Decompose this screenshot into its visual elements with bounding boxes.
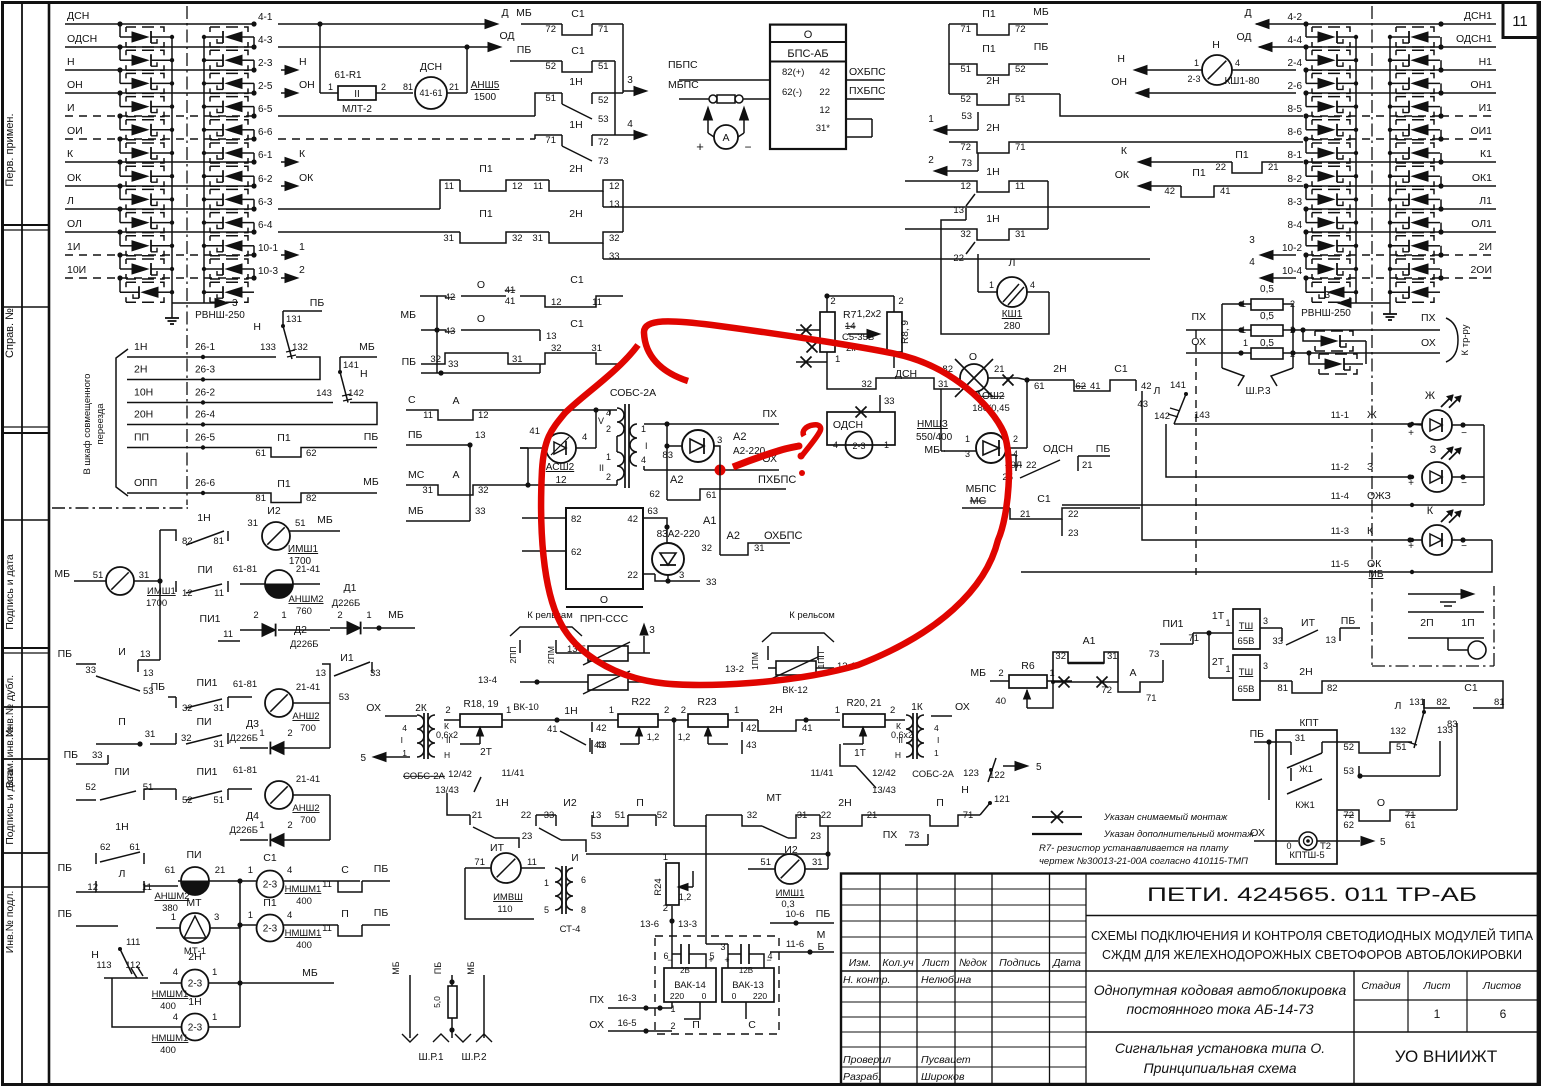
svg-text:2-3: 2-3 — [1187, 74, 1200, 84]
arrow out ОК — [281, 185, 286, 187]
svg-text:ВАК-13: ВАК-13 — [732, 980, 764, 991]
svg-text:Ж: Ж — [1425, 390, 1435, 402]
svg-text:63: 63 — [647, 506, 658, 517]
svg-text:ПБ: ПБ — [364, 431, 379, 443]
svg-text:21: 21 — [1268, 162, 1279, 173]
svg-text:6-6: 6-6 — [258, 127, 273, 138]
svg-text:ДСН1: ДСН1 — [1464, 10, 1492, 22]
svg-text:МБПС: МБПС — [668, 79, 699, 91]
svg-text:21: 21 — [1082, 460, 1093, 471]
svg-text:72: 72 — [545, 24, 556, 35]
dash separator signals — [1195, 330, 1197, 575]
svg-text:Л: Л — [119, 868, 126, 880]
svg-text:ПБ: ПБ — [374, 863, 389, 875]
svg-text:Н: Н — [253, 321, 261, 333]
svg-text:13: 13 — [475, 430, 486, 441]
svg-text:51: 51 — [960, 64, 971, 75]
dash-dot horizontal crossing bottom — [52, 507, 188, 509]
svg-text:12/42: 12/42 — [448, 769, 472, 780]
svg-text:31: 31 — [213, 703, 224, 714]
svg-text:61-81: 61-81 — [233, 765, 257, 776]
svg-text:82: 82 — [1327, 683, 1338, 694]
svg-text:2Т: 2Т — [480, 747, 492, 758]
contact KZh1 — [1290, 768, 1292, 781]
BPS pin12 pin31 loop — [846, 118, 872, 120]
vertical 13-3 from P contact — [705, 826, 707, 944]
svg-text:ПХ: ПХ — [883, 829, 898, 841]
svg-text:2-3: 2-3 — [188, 1023, 203, 1034]
svg-text:1: 1 — [1194, 58, 1199, 68]
right vertical ShR3 — [1292, 304, 1294, 368]
svg-text:ОДСН: ОДСН — [67, 33, 97, 45]
svg-text:С: С — [408, 394, 416, 406]
svg-text:31: 31 — [1015, 229, 1026, 240]
svg-text:1: 1 — [641, 424, 646, 434]
svg-text:С: С — [748, 1019, 756, 1031]
svg-text:1: 1 — [1434, 1007, 1441, 1021]
svg-text:О: О — [969, 351, 977, 363]
svg-text:С1: С1 — [571, 8, 585, 20]
svg-text:И1: И1 — [1479, 102, 1493, 114]
svg-text:ВК-10: ВК-10 — [513, 702, 539, 713]
svg-text:ТШ: ТШ — [1239, 621, 1254, 632]
svg-text:ОИ: ОИ — [67, 125, 83, 137]
svg-text:73: 73 — [1149, 649, 1160, 660]
arrester pair row 10 right — [1305, 232, 1307, 246]
svg-text:16-5: 16-5 — [617, 1018, 636, 1029]
left strip box Sprav No — [3, 306, 50, 308]
svg-text:8-2: 8-2 — [1288, 174, 1303, 185]
svg-text:ПБ: ПБ — [374, 907, 389, 919]
svg-text:1,2: 1,2 — [647, 732, 660, 742]
svg-text:И: И — [571, 853, 578, 864]
left block bus col1 — [171, 37, 173, 303]
wire 2N to row I1 — [1060, 94, 1303, 116]
svg-text:А2: А2 — [727, 530, 740, 542]
svg-text:33: 33 — [884, 396, 895, 407]
svg-text:12: 12 — [512, 181, 523, 192]
svg-text:400: 400 — [296, 940, 312, 951]
svg-text:С1: С1 — [571, 45, 585, 57]
svg-text:4-1: 4-1 — [258, 12, 273, 23]
svg-text:Лист: Лист — [921, 957, 949, 969]
svg-text:11/41: 11/41 — [501, 768, 524, 779]
arrester pair row 9 left — [119, 209, 121, 223]
svg-text:53: 53 — [961, 111, 972, 122]
O lamp left vertical — [940, 389, 942, 451]
svg-text:71: 71 — [474, 857, 485, 868]
svg-text:4: 4 — [287, 910, 292, 921]
svg-text:Д: Д — [501, 7, 508, 19]
svg-text:22: 22 — [1026, 460, 1037, 471]
svg-text:4: 4 — [173, 1012, 178, 1023]
svg-text:73: 73 — [909, 830, 920, 841]
right vertical bus x623 top — [622, 24, 624, 93]
svg-text:К рельсам: К рельсам — [527, 610, 572, 621]
svg-text:ВК-12: ВК-12 — [782, 685, 808, 696]
svg-text:51: 51 — [598, 61, 609, 72]
svg-text:1: 1 — [1241, 325, 1246, 335]
svg-text:ОЛ: ОЛ — [67, 218, 82, 230]
shunt box 13-5 — [588, 646, 628, 661]
svg-text:R8, 9: R8, 9 — [900, 320, 911, 344]
wire 23 down to 11-4 row — [1061, 536, 1063, 545]
svg-text:Однопутная кодовая автоблокиро: Однопутная кодовая автоблокировка — [1094, 982, 1347, 998]
svg-text:2ПМ: 2ПМ — [546, 646, 556, 664]
svg-text:КШ1-80: КШ1-80 — [1224, 76, 1259, 87]
svg-text:АНШ2: АНШ2 — [292, 803, 319, 814]
svg-text:I: I — [937, 735, 939, 745]
svg-text:33: 33 — [85, 665, 96, 676]
red question mark curl — [801, 425, 821, 457]
svg-text:42: 42 — [445, 292, 456, 303]
svg-text:1: 1 — [248, 910, 253, 921]
svg-text:2: 2 — [928, 155, 934, 166]
svg-text:0,6х2: 0,6х2 — [436, 730, 458, 740]
svg-text:НМШМ1: НМШМ1 — [285, 928, 322, 939]
svg-text:11-1: 11-1 — [1331, 410, 1349, 421]
svg-text:Указан снимаемый монтаж: Указан снимаемый монтаж — [1103, 812, 1228, 823]
arrow out 2 — [281, 277, 286, 279]
svg-text:НМШМ1: НМШМ1 — [152, 1033, 189, 1044]
svg-text:ДСН: ДСН — [420, 61, 442, 73]
vertical bus x437 — [434, 327, 439, 332]
left strip box Vzam inv No — [3, 758, 50, 760]
svg-text:ОД: ОД — [499, 30, 514, 42]
svg-text:3: 3 — [1324, 290, 1330, 301]
svg-text:3: 3 — [627, 75, 633, 86]
svg-text:С1: С1 — [1114, 363, 1128, 375]
svg-text:110: 110 — [497, 904, 512, 915]
svg-text:132: 132 — [292, 342, 308, 353]
svg-text:11-5: 11-5 — [1331, 559, 1349, 570]
svg-text:МБПС: МБПС — [966, 483, 997, 495]
svg-text:62: 62 — [306, 448, 317, 459]
svg-text:ПБ: ПБ — [58, 908, 73, 920]
contact 53 row — [1269, 765, 1291, 767]
ground right block — [1389, 303, 1391, 306]
svg-text:760: 760 — [296, 606, 312, 617]
svg-text:41: 41 — [802, 723, 813, 734]
svg-text:11: 11 — [1512, 13, 1528, 30]
svg-text:+: + — [724, 955, 729, 965]
svg-text:П: П — [118, 716, 126, 728]
svg-text:Н: Н — [299, 56, 307, 68]
vertical bus x623 mid — [622, 180, 624, 232]
svg-text:1: 1 — [544, 878, 549, 888]
spare arrow 2P 1P — [1408, 593, 1462, 595]
BPS right leads — [846, 79, 884, 81]
svg-text:Д: Д — [1244, 7, 1251, 19]
svg-text:П1: П1 — [479, 163, 493, 175]
svg-text:Д226Б: Д226Б — [229, 825, 258, 836]
svg-text:А: А — [452, 395, 459, 407]
svg-text:32: 32 — [701, 543, 712, 554]
svg-text:2: 2 — [445, 705, 450, 716]
svg-text:1: 1 — [663, 852, 668, 863]
svg-text:22: 22 — [521, 810, 532, 821]
wire 1N row — [127, 356, 276, 358]
svg-text:33: 33 — [448, 359, 459, 370]
svg-text:2ПП: 2ПП — [508, 647, 518, 664]
svg-text:53: 53 — [339, 692, 350, 703]
svg-text:26-2: 26-2 — [195, 388, 215, 399]
svg-text:42: 42 — [1164, 186, 1175, 197]
svg-text:СХЕМЫ ПОДКЛЮЧЕНИЯ И КОНТРОЛЯ С: СХЕМЫ ПОДКЛЮЧЕНИЯ И КОНТРОЛЯ СВЕТОДИОДНЫ… — [1091, 928, 1533, 943]
svg-text:4: 4 — [402, 723, 407, 733]
svg-text:51: 51 — [545, 93, 556, 104]
arrester pair row 3 left — [119, 70, 121, 83]
svg-text:26-1: 26-1 — [195, 342, 215, 353]
svg-text:73: 73 — [961, 158, 972, 169]
svg-text:2: 2 — [287, 728, 292, 739]
svg-text:10И: 10И — [67, 264, 86, 276]
svg-text:1П: 1П — [1461, 617, 1474, 629]
svg-text:Н: Н — [360, 368, 368, 380]
svg-text:Л1: Л1 — [1479, 195, 1492, 207]
svg-text:13-6: 13-6 — [640, 919, 659, 930]
svg-text:5: 5 — [1036, 762, 1042, 773]
svg-text:Л: Л — [1395, 700, 1402, 712]
svg-text:ПХБПС: ПХБПС — [849, 85, 886, 97]
svg-text:22: 22 — [627, 570, 638, 581]
svg-text:52: 52 — [598, 95, 609, 106]
arrester pair row 2 left — [119, 47, 121, 60]
unit PRP-SSS box — [566, 508, 643, 589]
svg-text:2: 2 — [253, 610, 258, 621]
svg-text:МБ: МБ — [466, 961, 476, 974]
title block row Izm header — [841, 970, 1086, 972]
svg-text:51: 51 — [1396, 742, 1407, 753]
svg-text:2: 2 — [670, 1021, 675, 1031]
svg-text:ПИ: ПИ — [196, 716, 211, 728]
wire ODSN long to OD arrow — [278, 46, 489, 48]
svg-text:1Н: 1Н — [197, 512, 210, 524]
svg-text:1700: 1700 — [146, 598, 167, 609]
arrester pair row 4 left — [119, 93, 121, 107]
svg-text:−: − — [1461, 428, 1467, 439]
arrester pair row 11 right — [1305, 255, 1307, 269]
svg-text:72: 72 — [960, 142, 971, 153]
svg-text:ПИ1: ПИ1 — [197, 766, 218, 778]
svg-text:МБ: МБ — [516, 7, 532, 19]
svg-text:П: П — [341, 908, 349, 920]
svg-text:А1: А1 — [703, 515, 716, 527]
svg-text:82: 82 — [1436, 697, 1447, 708]
svg-text:R7: R7 — [843, 309, 857, 321]
svg-text:8-1: 8-1 — [1288, 150, 1303, 161]
svg-text:83А2-220: 83А2-220 — [657, 529, 701, 540]
svg-text:МБ: МБ — [970, 667, 986, 679]
svg-text:400: 400 — [296, 896, 312, 907]
removed-wiring X marks R7 — [801, 325, 812, 336]
svg-text:2: 2 — [381, 82, 386, 92]
svg-text:МБ: МБ — [388, 609, 404, 621]
left strip box Podpis i data upper — [3, 519, 50, 521]
svg-text:Д226Б: Д226Б — [332, 598, 361, 609]
svg-text:БПС-АБ: БПС-АБ — [787, 48, 828, 60]
svg-text:12: 12 — [478, 410, 489, 421]
svg-text:МБ: МБ — [400, 309, 416, 321]
svg-text:ПИ: ПИ — [114, 766, 129, 778]
svg-text:31: 31 — [422, 485, 433, 496]
O crossed lamp leads — [1026, 380, 1028, 448]
svg-text:51: 51 — [615, 810, 626, 821]
svg-text:О: О — [804, 29, 813, 41]
arrester pair row 12 left — [126, 282, 164, 287]
svg-text:2: 2 — [1013, 434, 1018, 444]
svg-text:2-4: 2-4 — [1288, 58, 1303, 69]
svg-text:31: 31 — [754, 543, 765, 554]
svg-text:2: 2 — [663, 903, 668, 914]
svg-text:ОН: ОН — [1111, 76, 1127, 88]
svg-text:4: 4 — [1030, 280, 1035, 290]
svg-text:О: О — [477, 279, 485, 291]
svg-text:−: − — [766, 955, 771, 965]
svg-text:71: 71 — [598, 24, 609, 35]
svg-text:71: 71 — [545, 135, 556, 146]
svg-text:1Н: 1Н — [134, 341, 147, 353]
arrester pair row 1 right — [1305, 24, 1307, 37]
svg-text:V: V — [598, 416, 604, 426]
svg-text:Указан дополнительный монтаж: Указан дополнительный монтаж — [1103, 829, 1254, 840]
svg-text:2: 2 — [606, 472, 611, 482]
svg-text:22: 22 — [953, 253, 964, 264]
svg-text:6: 6 — [1500, 1007, 1507, 1021]
svg-text:Л: Л — [1154, 385, 1161, 397]
ShR chevrons — [402, 1034, 418, 1042]
svg-text:32: 32 — [478, 485, 489, 496]
svg-text:2П: 2П — [1420, 617, 1433, 629]
wire OI row long dashed — [278, 138, 535, 140]
svg-text:2-3: 2-3 — [852, 441, 865, 451]
svg-text:Сигнальная установка типа О.: Сигнальная установка типа О. — [1115, 1040, 1325, 1056]
svg-text:1Н: 1Н — [495, 797, 508, 809]
svg-text:ОН: ОН — [67, 79, 83, 91]
svg-text:11: 11 — [592, 297, 602, 308]
title block stage/list — [1353, 971, 1355, 1084]
svg-text:400: 400 — [160, 1045, 176, 1056]
arrester pair row 3 right — [1305, 70, 1307, 83]
svg-text:К: К — [299, 148, 306, 160]
svg-text:Б: Б — [818, 941, 825, 953]
svg-text:ОХ: ОХ — [955, 701, 970, 713]
svg-text:6-4: 6-4 — [258, 220, 273, 231]
svg-text:13-2: 13-2 — [725, 664, 744, 675]
svg-text:42: 42 — [1141, 381, 1152, 392]
svg-text:Широков: Широков — [921, 1071, 965, 1083]
svg-text:R22: R22 — [631, 696, 650, 708]
svg-text:1,2: 1,2 — [679, 892, 692, 902]
svg-text:32: 32 — [1055, 651, 1066, 662]
svg-text:ПБ: ПБ — [408, 429, 423, 441]
svg-text:РВНШ-250: РВНШ-250 — [1301, 308, 1351, 319]
svg-text:1: 1 — [299, 241, 305, 253]
svg-text:33: 33 — [370, 668, 381, 679]
svg-text:R24: R24 — [653, 878, 664, 895]
svg-text:61: 61 — [1034, 381, 1045, 392]
svg-text:31*: 31* — [816, 123, 831, 134]
svg-text:12: 12 — [555, 475, 567, 486]
svg-text:11/41: 11/41 — [810, 768, 833, 779]
svg-text:10Н: 10Н — [134, 387, 153, 399]
svg-text:13: 13 — [609, 199, 620, 210]
svg-text:ОДСН: ОДСН — [1043, 443, 1073, 455]
svg-text:А2: А2 — [733, 431, 746, 443]
wire 11-2 row — [1165, 421, 1167, 423]
svg-text:32: 32 — [861, 379, 872, 390]
wire from crossing block to right — [627, 369, 629, 371]
svg-text:81: 81 — [403, 82, 413, 92]
svg-text:1: 1 — [928, 114, 934, 125]
svg-text:К: К — [1121, 145, 1128, 157]
svg-text:1: 1 — [835, 354, 840, 365]
wire 143 to row 11-1 — [1174, 423, 1345, 425]
svg-text:23: 23 — [810, 831, 821, 842]
svg-text:13: 13 — [953, 205, 964, 216]
svg-text:13-3: 13-3 — [678, 919, 697, 930]
svg-text:1: 1 — [366, 610, 371, 621]
svg-text:МБ: МБ — [54, 568, 70, 580]
svg-text:61-81: 61-81 — [233, 679, 257, 690]
svg-text:2Н: 2Н — [986, 75, 999, 87]
svg-text:МС: МС — [970, 495, 987, 507]
svg-text:2Н: 2Н — [134, 364, 147, 376]
svg-text:К: К — [1367, 525, 1374, 537]
svg-text:4: 4 — [627, 119, 633, 130]
KPT inner bus — [1268, 742, 1270, 800]
svg-text:ОЛ1: ОЛ1 — [1471, 218, 1492, 230]
svg-text:О: О — [477, 313, 485, 325]
svg-text:12: 12 — [551, 297, 562, 308]
svg-text:132: 132 — [1390, 726, 1406, 737]
svg-text:2: 2 — [337, 610, 342, 621]
arrester pair row 5 left — [119, 116, 121, 130]
svg-text:+: + — [1408, 541, 1414, 552]
svg-text:Проверил: Проверил — [843, 1054, 891, 1066]
X marks A1 — [1059, 677, 1070, 688]
svg-text:ИМШ1: ИМШ1 — [147, 586, 176, 597]
svg-text:П1: П1 — [479, 208, 493, 220]
svg-text:133: 133 — [260, 342, 276, 353]
svg-text:4-3: 4-3 — [258, 35, 273, 46]
svg-text:1: 1 — [934, 748, 939, 758]
svg-text:81: 81 — [1277, 683, 1288, 694]
svg-text:ТШ: ТШ — [1239, 667, 1254, 678]
svg-text:31: 31 — [139, 570, 150, 581]
svg-text:8-3: 8-3 — [1288, 197, 1303, 208]
svg-text:МБ: МБ — [317, 514, 333, 526]
arrester pair row 1 left — [119, 24, 121, 37]
svg-text:R6: R6 — [1021, 660, 1035, 672]
svg-text:32: 32 — [512, 233, 523, 244]
K tr-ru bracket — [1446, 318, 1458, 362]
svg-text:13: 13 — [315, 668, 326, 679]
svg-text:ОЖЗ: ОЖЗ — [1367, 490, 1391, 502]
svg-text:32: 32 — [609, 233, 620, 244]
svg-text:65В: 65В — [1238, 684, 1255, 695]
arrow out К — [281, 161, 286, 163]
svg-text:R20, 21: R20, 21 — [846, 698, 881, 709]
svg-text:R18, 19: R18, 19 — [463, 699, 498, 710]
svg-text:32: 32 — [182, 703, 193, 714]
arrester pair row 9 right — [1305, 209, 1307, 223]
svg-text:2: 2 — [890, 705, 895, 716]
svg-text:2: 2 — [287, 820, 292, 831]
svg-text:НМШЗ: НМШЗ — [917, 419, 948, 430]
svg-text:2: 2 — [664, 705, 669, 716]
contact Zh1 — [1290, 742, 1292, 755]
